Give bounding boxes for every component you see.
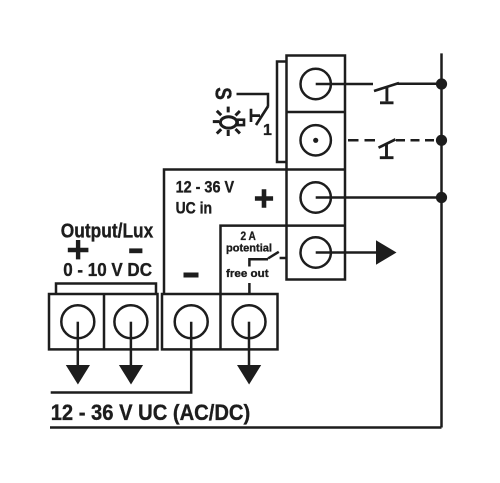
arrow B1	[66, 365, 90, 385]
selector switch actuator	[251, 109, 260, 122]
terminal cell divider 2/3	[287, 168, 346, 171]
switch S2 actuator	[380, 144, 394, 158]
right strip lip	[277, 62, 287, 163]
terminal screw T3	[301, 182, 331, 212]
wire B3 to supply	[51, 322, 192, 393]
terminal screw B2	[114, 305, 147, 338]
output arrow from T4	[316, 251, 377, 254]
svg-text:1: 1	[263, 122, 272, 139]
junction dot node 3	[436, 192, 447, 203]
minus sign output/lux	[129, 248, 142, 253]
dashed wire T2 to switch S2	[348, 139, 376, 142]
junction dot node 2	[436, 135, 447, 146]
node dot T2 center	[313, 138, 318, 143]
switch S2 blade	[379, 139, 396, 147]
bottom terminal block A outline	[49, 294, 158, 349]
right bus vertical wire	[440, 53, 443, 427]
minus sign UC in	[184, 273, 199, 278]
relay contact K1 blade	[268, 252, 279, 259]
terminal screw B1	[61, 305, 94, 338]
svg-text:12 - 36 V: 12 - 36 V	[176, 178, 235, 196]
plus sign output/lux	[68, 240, 89, 259]
svg-text:Output/Lux: Output/Lux	[61, 221, 154, 243]
svg-text:potential: potential	[226, 242, 272, 254]
bottom terminal divider 1/2	[103, 294, 106, 349]
terminal screw T1	[301, 69, 331, 99]
selector switch blade	[256, 106, 268, 125]
plus sign UC in	[255, 189, 273, 208]
dashed wire switch S2 to bus	[396, 139, 436, 142]
terminal block right strip outline	[287, 56, 346, 280]
switch S1 actuator	[380, 88, 394, 103]
terminal cell divider 1/2	[287, 111, 346, 114]
terminal cell divider 3/4	[287, 224, 346, 227]
arrow B2	[119, 365, 143, 385]
arrow B4	[237, 365, 261, 385]
bottom terminal divider 3/4	[219, 294, 222, 349]
relay contact K1 stub to T4	[280, 257, 287, 260]
12-36V UC in box outline	[164, 170, 287, 295]
svg-text:UC in: UC in	[176, 199, 212, 217]
svg-text:12 - 36 V UC (AC/DC): 12 - 36 V UC (AC/DC)	[51, 400, 251, 425]
wire B1 down	[77, 322, 80, 366]
bottom strip lip	[56, 284, 156, 295]
svg-text:2 A: 2 A	[241, 229, 257, 243]
terminal screw T4	[301, 237, 331, 267]
bottom supply wire	[50, 426, 442, 429]
svg-text:free out: free out	[226, 268, 269, 280]
wire B2 down	[130, 322, 133, 366]
terminal screw B4	[233, 305, 266, 338]
switch S1 blade	[374, 83, 399, 91]
bottom terminal block B outline	[162, 294, 278, 349]
sun lamp icon	[213, 107, 244, 136]
selector switch wire from S	[237, 94, 269, 106]
junction dot node 1	[436, 78, 447, 89]
terminal screw B3	[175, 305, 208, 338]
wire B4 down	[248, 322, 251, 366]
svg-text:S: S	[211, 87, 237, 100]
2A free out box outline	[221, 226, 287, 294]
wire T1 to switch S1	[316, 83, 373, 86]
wire switch S1 to bus	[398, 82, 442, 85]
wire T3 to bus	[316, 196, 442, 199]
relay contact K1 wire left	[249, 259, 268, 294]
svg-text:0 - 10 V DC: 0 - 10 V DC	[63, 259, 152, 280]
terminal screw T2	[301, 125, 331, 155]
